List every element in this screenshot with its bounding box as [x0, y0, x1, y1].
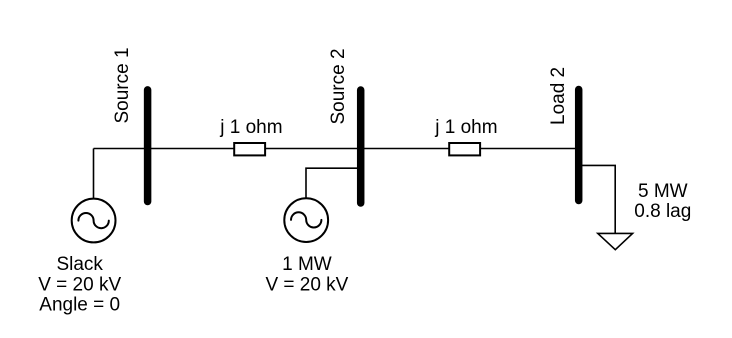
wire: load feeder from Load 2 bus right and down to load arrow	[579, 165, 616, 233]
svg-text:j 1 ohm: j 1 ohm	[434, 117, 497, 138]
svg-text:V = 20 kV: V = 20 kV	[265, 274, 348, 295]
svg-text:Load 2: Load 2	[548, 67, 569, 125]
svg-text:Angle = 0: Angle = 0	[39, 295, 120, 316]
generator G2 (1 MW source) circle	[284, 198, 328, 242]
reactance X2 (j 1 ohm box between Source 2 and Load 2)	[449, 143, 480, 155]
svg-text:5 MW: 5 MW	[638, 181, 688, 202]
wire: riser from slack generator G1 up to main wire	[93, 149, 95, 199]
generator G1 (slack source) circle	[72, 199, 116, 243]
svg-text:0.8 lag: 0.8 lag	[634, 201, 691, 222]
svg-text:V = 20 kV: V = 20 kV	[38, 274, 121, 295]
load arrow (down triangle for 5 MW load)	[598, 233, 633, 249]
bus Load 2	[575, 90, 583, 201]
generator G2 sine symbol	[291, 212, 321, 227]
wire: hook from Source 2 bus left and down to generator G2	[306, 168, 361, 198]
reactance X1 (j 1 ohm box between Source 1 and Source 2)	[234, 143, 265, 155]
svg-text:Source 2: Source 2	[328, 48, 349, 124]
wire: main horizontal bus-tie wire from slack riser to Load 2 bus	[94, 148, 579, 150]
bus Source 1	[144, 90, 152, 202]
svg-text:1 MW: 1 MW	[282, 254, 332, 275]
generator G1 sine symbol	[78, 213, 108, 228]
svg-text:Slack: Slack	[56, 254, 103, 275]
bus Source 2	[357, 90, 365, 203]
svg-text:j 1 ohm: j 1 ohm	[219, 117, 282, 138]
svg-text:Source 1: Source 1	[112, 47, 133, 123]
